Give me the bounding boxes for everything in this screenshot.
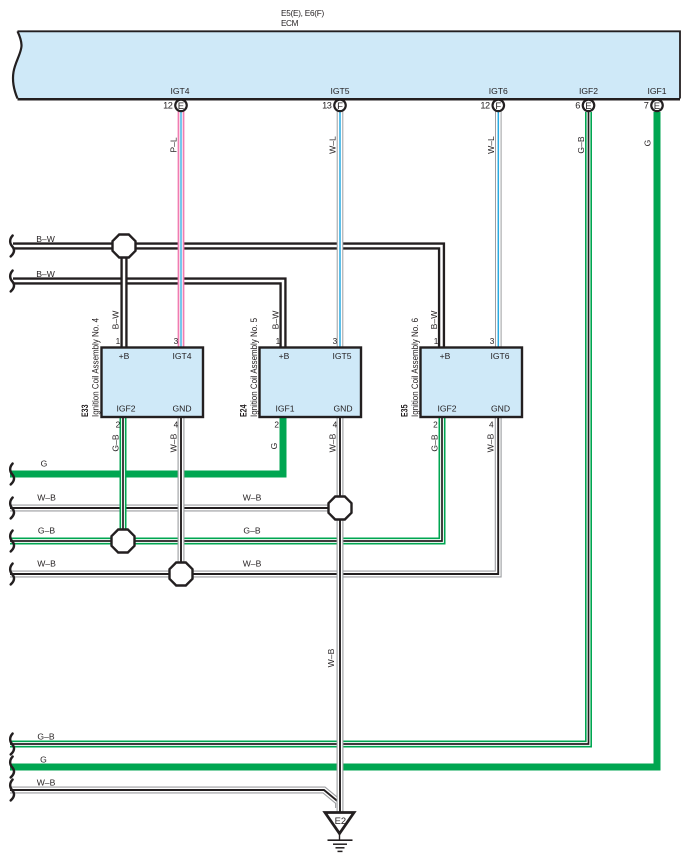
connector break W-B second <box>10 564 14 585</box>
svg-text:4: 4 <box>489 420 494 430</box>
svg-text:B–W: B–W <box>429 310 439 330</box>
connector break G bottom <box>10 757 14 778</box>
svg-text:IGT5: IGT5 <box>332 351 351 361</box>
svg-text:G–B: G–B <box>111 434 121 451</box>
wire G-B from E33 IGF2 pin to junction <box>120 416 127 541</box>
svg-text:W–B: W–B <box>243 559 262 569</box>
svg-text:B–W: B–W <box>111 310 121 330</box>
svg-text:F: F <box>337 101 343 112</box>
wire W-L from ECM IGT6 to E35 IGT6 <box>495 111 502 348</box>
svg-text:6: 6 <box>575 101 580 111</box>
connector break G <box>10 464 14 485</box>
svg-text:GND: GND <box>333 404 352 414</box>
wire W-B from E24 GND pin down to ground E2 <box>337 416 344 812</box>
svg-text:12: 12 <box>163 101 173 111</box>
ignition coil assembly E35 (No. 6) <box>421 348 523 418</box>
ECM pin 12(E) IGT4 <box>163 100 187 112</box>
svg-text:2: 2 <box>116 420 121 430</box>
wire G-B bottom run to ECM IGF2 <box>10 112 589 744</box>
svg-text:W–L: W–L <box>486 136 496 154</box>
wire G bottom run to ECM IGF1 <box>10 112 657 767</box>
wire B-W from left connector to E24 +B pin <box>13 281 283 348</box>
svg-text:W–B: W–B <box>37 559 56 569</box>
connector break B-W lower <box>10 271 14 292</box>
ECM pin 7(E) IGF1 <box>644 100 663 112</box>
svg-text:W–B: W–B <box>37 778 56 788</box>
ECM pin 12(F) IGT6 <box>480 100 504 112</box>
ECM pin 6(E) IGF2 <box>575 100 594 112</box>
svg-text:1: 1 <box>276 336 281 346</box>
svg-text:W–B: W–B <box>328 433 338 452</box>
svg-text:G–B: G–B <box>243 526 260 536</box>
svg-text:+B: +B <box>279 351 290 361</box>
svg-text:GND: GND <box>172 404 191 414</box>
wire B-W from junction down to E33 +B pin <box>120 246 127 348</box>
svg-text:ECM: ECM <box>281 19 299 28</box>
wire W-B bottom run joining ground stem <box>10 790 339 808</box>
wire P-L from ECM IGT4 to E33 IGT4 <box>178 111 185 348</box>
ECM E5/E6 connector band <box>13 31 680 99</box>
svg-text:IGF2: IGF2 <box>579 86 598 96</box>
svg-text:W–B: W–B <box>169 433 179 452</box>
svg-text:IGF1: IGF1 <box>275 404 294 414</box>
svg-text:IGT4: IGT4 <box>172 351 191 361</box>
svg-text:IGT6: IGT6 <box>490 351 509 361</box>
svg-text:W–B: W–B <box>326 648 336 667</box>
svg-text:13: 13 <box>322 101 332 111</box>
svg-text:B–W: B–W <box>36 234 56 244</box>
svg-text:E24: E24 <box>239 404 249 417</box>
svg-text:IGT6: IGT6 <box>489 86 508 96</box>
svg-text:W–B: W–B <box>243 493 262 503</box>
svg-text:G: G <box>40 755 47 765</box>
svg-text:3: 3 <box>174 336 179 346</box>
wire G-B from left connector to E35 IGF2 pin <box>10 416 442 541</box>
junction B-W at (123,246) <box>113 235 136 258</box>
svg-text:12: 12 <box>480 101 490 111</box>
wire W-B from left connector to E35 GND pin <box>10 416 498 574</box>
svg-text:IGT4: IGT4 <box>170 86 189 96</box>
svg-text:7: 7 <box>644 101 649 111</box>
connector break W-B first <box>10 498 14 519</box>
junction W-B at (340,508) <box>329 497 352 520</box>
connector break B-W upper <box>10 236 14 257</box>
svg-text:4: 4 <box>333 420 338 430</box>
svg-text:W–B: W–B <box>486 433 496 452</box>
svg-text:G–B: G–B <box>576 136 586 153</box>
junction W-B at (181,574) <box>170 563 193 586</box>
svg-text:3: 3 <box>333 336 338 346</box>
svg-text:+B: +B <box>440 351 451 361</box>
svg-text:1: 1 <box>434 336 439 346</box>
svg-text:IGF1: IGF1 <box>647 86 666 96</box>
svg-text:IGF2: IGF2 <box>437 404 456 414</box>
svg-text:W–L: W–L <box>328 136 338 154</box>
wire W-B from E33 GND pin to junction <box>178 416 185 574</box>
svg-text:E33: E33 <box>80 404 90 417</box>
svg-text:2: 2 <box>274 420 279 430</box>
svg-text:4: 4 <box>174 420 179 430</box>
svg-text:2: 2 <box>433 420 438 430</box>
ignition coil assembly E24 (No. 5) <box>260 348 362 418</box>
svg-text:E5(E), E6(F): E5(E), E6(F) <box>281 9 324 18</box>
svg-text:IGT5: IGT5 <box>330 86 349 96</box>
svg-text:GND: GND <box>491 404 510 414</box>
svg-text:+B: +B <box>119 351 130 361</box>
svg-text:G–B: G–B <box>38 526 55 536</box>
svg-text:F: F <box>495 101 501 112</box>
ground E2 <box>325 813 354 852</box>
svg-text:B–W: B–W <box>271 310 281 330</box>
wire B-W from left connector to E35 +B pin (horizontal run) <box>13 246 442 348</box>
wire W-L from ECM IGT5 to E24 IGT5 <box>337 111 344 348</box>
ECM pin 13(F) IGT5 <box>322 100 346 112</box>
svg-text:3: 3 <box>490 336 495 346</box>
svg-text:E35: E35 <box>400 404 410 417</box>
svg-text:Ignition Coil Assembly No. 4: Ignition Coil Assembly No. 4 <box>91 318 101 417</box>
svg-text:G: G <box>643 139 653 146</box>
svg-text:E: E <box>585 101 591 112</box>
svg-text:Ignition Coil Assembly No. 6: Ignition Coil Assembly No. 6 <box>410 318 420 417</box>
svg-text:W–B: W–B <box>37 493 56 503</box>
svg-text:G–B: G–B <box>430 434 440 451</box>
connector break G-B <box>10 531 14 552</box>
wire W-B from left connector to junction at x340 <box>10 505 340 512</box>
svg-text:E2: E2 <box>335 815 346 826</box>
svg-text:IGF2: IGF2 <box>116 404 135 414</box>
svg-text:P–L: P–L <box>169 137 179 153</box>
svg-text:G: G <box>269 442 279 449</box>
svg-text:E: E <box>178 101 184 112</box>
wire G from left connector to E24 IGF1 pin <box>10 416 283 474</box>
junction G-B at (123,541) <box>112 530 135 553</box>
connector break G-B bottom <box>10 734 14 755</box>
ignition coil assembly E33 (No. 4) <box>102 348 204 418</box>
svg-text:B–W: B–W <box>36 269 56 279</box>
connector break W-B bottom <box>10 780 14 801</box>
svg-text:G–B: G–B <box>37 732 54 742</box>
svg-text:E: E <box>654 101 660 112</box>
svg-text:G: G <box>41 459 48 469</box>
svg-text:Ignition Coil Assembly No. 5: Ignition Coil Assembly No. 5 <box>249 318 259 417</box>
svg-text:1: 1 <box>116 336 121 346</box>
